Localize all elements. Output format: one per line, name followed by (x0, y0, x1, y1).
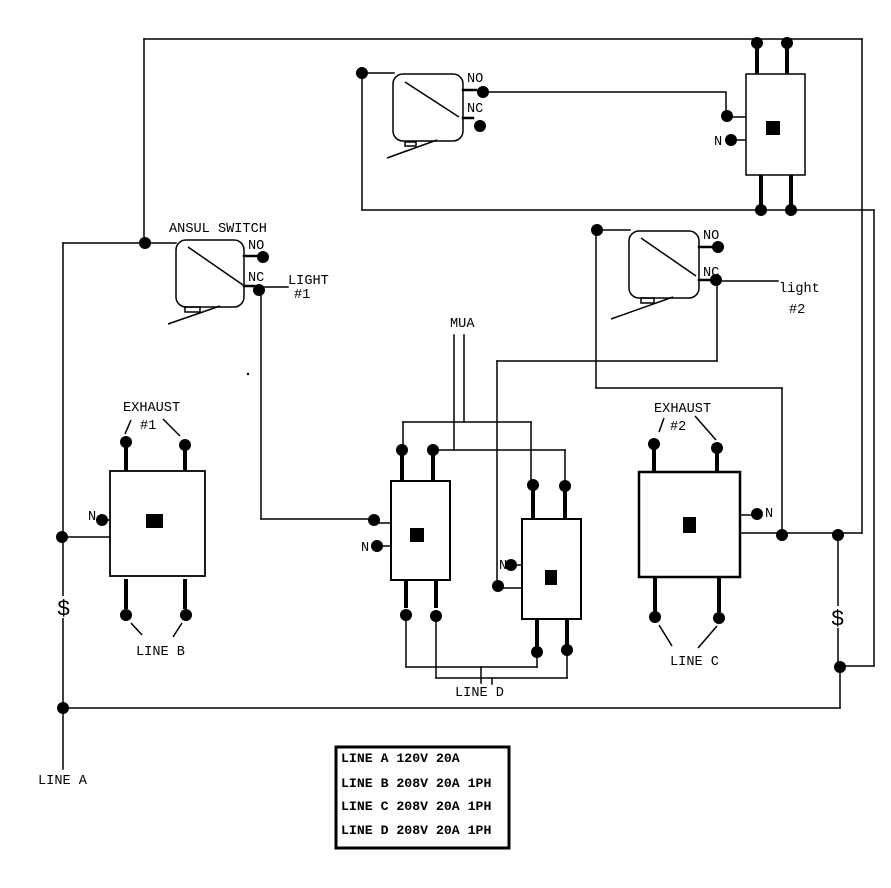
svg-text:LINE B: LINE B (136, 645, 185, 660)
svg-text:NO: NO (467, 72, 483, 87)
node S3 feed (591, 224, 603, 236)
wire bottom long rail (63, 707, 840, 709)
node exhaust1 fan right (179, 439, 191, 451)
svg-text:N: N (765, 507, 773, 522)
wire MUA lower to K4 terminal (564, 450, 566, 486)
microswitch S1 body (387, 74, 463, 158)
contactor K3 MUA (391, 481, 450, 580)
wire MUA branch upper horizontal (403, 421, 531, 423)
svg-text:ANSUL SWITCH: ANSUL SWITCH (169, 222, 267, 237)
svg-text:#1: #1 (294, 288, 310, 303)
svg-text:LINE D 208V 20A 1PH: LINE D 208V 20A 1PH (341, 823, 491, 838)
svg-text:EXHAUST: EXHAUST (654, 402, 711, 417)
wire joint down to bottom rail (839, 667, 841, 708)
node S1 NC terminal (474, 120, 486, 132)
node fuse top junction (832, 529, 844, 541)
svg-text:$: $ (831, 607, 844, 632)
contactor K1 terminal stubs (757, 45, 791, 208)
wire S3 feed vertical (595, 230, 597, 388)
svg-text:MUA: MUA (450, 317, 475, 332)
wire MUA line 1 (453, 335, 455, 450)
contactor K5 terminal stubs (654, 449, 719, 612)
wire line B slash right (173, 623, 182, 637)
node K4 coil (492, 580, 504, 592)
node exhaust1 line left (120, 609, 132, 621)
node K1 N (725, 134, 737, 146)
wire K3 coil stub (376, 522, 391, 524)
node exhaust2 fan right (711, 442, 723, 454)
svg-text:LINE A: LINE A (38, 774, 88, 789)
wire ansul feed horizontal (63, 242, 176, 244)
wire far right outer vertical (873, 210, 875, 666)
node K1 coil (721, 110, 733, 122)
contactor K2 exhaust1 (110, 471, 205, 576)
svg-text:LINE D: LINE D (455, 686, 504, 701)
svg-text:LIGHT: LIGHT (288, 274, 329, 289)
wire light1 NC vertical (260, 291, 262, 519)
node K4 bottom left (531, 646, 543, 658)
node S3 NC (710, 274, 722, 286)
wire line B slash left (131, 623, 142, 635)
stray speck (247, 373, 249, 375)
svg-text:LINE B 208V 20A 1PH: LINE B 208V 20A 1PH (341, 776, 491, 791)
svg-text:light: light (779, 282, 820, 297)
label pointer slashes (125, 416, 717, 648)
node K3 coil (368, 514, 380, 526)
microswitch S2 ANSUL body (168, 240, 244, 324)
wire exhaust1 left feed (63, 536, 111, 538)
wire exhaust1 label slash left (125, 420, 131, 434)
node exhaust1 N (96, 514, 108, 526)
wire MUA line 2 (463, 335, 465, 422)
node K4 N (505, 559, 517, 571)
fuse symbol left (56, 596, 72, 622)
node S3 NO (712, 241, 724, 253)
node K4 top left (527, 479, 539, 491)
svg-text:NO: NO (703, 229, 719, 244)
wire MUA lower horizontal (433, 449, 565, 451)
wire line D lower horizontal (436, 677, 567, 679)
node ansul junction (139, 237, 151, 249)
wire K3 line D left drop (405, 620, 407, 667)
wire ansul NO stub (244, 255, 257, 258)
svg-text:N: N (499, 559, 507, 574)
node ansul NC (253, 284, 265, 296)
wire line D tick 2 (491, 678, 493, 684)
node S1 NO terminal (477, 86, 489, 98)
svg-text:#2: #2 (670, 420, 686, 435)
wire top section bottom rail (362, 209, 874, 211)
wire line C slash left (659, 625, 672, 646)
svg-text:LINE C 208V 20A 1PH: LINE C 208V 20A 1PH (341, 799, 491, 814)
node exhaust2 N (751, 508, 763, 520)
svg-text:NC: NC (248, 271, 264, 286)
node fuse bottom junction (834, 661, 846, 673)
wire S3 NC horizontal to K4 (497, 360, 717, 362)
wire S1 NC stub (463, 117, 473, 120)
node ansul NO (257, 251, 269, 263)
contactor K4 terminal stubs (533, 489, 567, 648)
wire K4 feed vertical (496, 361, 498, 586)
wire light1 NC to K3 (261, 518, 374, 520)
node exhaust1 feed (56, 531, 68, 543)
wire K3 line D right drop (435, 621, 437, 678)
node K4 bottom right (561, 644, 573, 656)
wire K4 right drop (566, 655, 568, 678)
node K3 top left (396, 444, 408, 456)
fuse symbol right (830, 606, 846, 632)
wire outer vertical to fuse joint (840, 665, 874, 667)
svg-text:#2: #2 (789, 303, 805, 318)
svg-text:NO: NO (248, 239, 264, 254)
contactor K3 terminal stubs (402, 454, 436, 608)
node S1 feed (356, 67, 368, 79)
wire top rail (144, 38, 862, 40)
node line A junction (57, 702, 69, 714)
wire left vertical of top corner (143, 39, 145, 243)
wire top switch feed stub (362, 72, 394, 74)
wire MUA branch to K4 terminal (530, 422, 532, 485)
node exhaust2 line left (649, 611, 661, 623)
wire exhaust2 N stub (740, 514, 752, 516)
wire K1 N stub (736, 139, 746, 141)
svg-text:EXHAUST: EXHAUST (123, 401, 180, 416)
wire S3 feed stub (597, 229, 630, 231)
legend box (336, 747, 509, 848)
node exhaust2 feed junction (776, 529, 788, 541)
svg-text:N: N (88, 510, 96, 525)
wire K4 coil stub (498, 587, 522, 589)
node K3 N (371, 540, 383, 552)
wire exhaust2 label slash left (659, 418, 664, 432)
contactor K1 (746, 74, 805, 175)
wire K3 N stub (378, 545, 391, 547)
wire S1 NO to relay K1 (483, 92, 726, 116)
node exhaust2 line right (713, 612, 725, 624)
svg-text:N: N (714, 135, 722, 150)
svg-text:LINE C: LINE C (670, 655, 719, 670)
node K1 top left (751, 37, 763, 49)
svg-text:NC: NC (467, 102, 483, 117)
wire line D tick 1 (480, 667, 482, 683)
wire exhaust1 label slash right (163, 419, 180, 436)
wire S3 NC stub (699, 279, 710, 282)
node K1 bottom left (755, 204, 767, 216)
node exhaust1 line right (180, 609, 192, 621)
node K3 bottom left (400, 609, 412, 621)
wire exhaust2 label slash right (695, 416, 716, 440)
node K1 top right (781, 37, 793, 49)
wire line D upper horizontal (406, 666, 537, 668)
wire K4 N stub (512, 564, 522, 566)
wire exhaust2 feed vertical (781, 388, 783, 535)
wire fuse drop right (837, 535, 839, 667)
wire MUA branch to K3 terminal (402, 422, 404, 450)
node K3 top right (427, 444, 439, 456)
wire S3 NC vertical (716, 281, 718, 361)
wire S3 feed horizontal (596, 387, 782, 389)
wire right vertical from top rail to exhaust2 feed (861, 39, 863, 533)
wire exhaust1 N stub (104, 519, 110, 521)
node K3 bottom right (430, 610, 442, 622)
svg-text:#1: #1 (140, 419, 156, 434)
wire exhaust2 right feed (740, 532, 862, 534)
svg-text:N: N (361, 541, 369, 556)
wire light2 label stub (722, 280, 778, 282)
svg-text:$: $ (57, 597, 70, 622)
node exhaust1 fan left (120, 436, 132, 448)
node K1 bottom right (785, 204, 797, 216)
contactor K2 terminal stubs (126, 446, 185, 609)
wire S3 NO stub (699, 246, 712, 249)
contactor K4 MUA2 (522, 519, 581, 619)
svg-text:LINE A 120V 20A: LINE A 120V 20A (341, 751, 460, 766)
contactor K5 exhaust2 (639, 472, 740, 577)
node exhaust2 fan left (648, 438, 660, 450)
wire ansul NC stub (244, 285, 254, 288)
microswitch S3 body (611, 231, 699, 319)
wire left main vertical (LINE A) (62, 243, 64, 769)
wire K1 coil stub (727, 116, 746, 118)
wire light1 label stub (265, 286, 288, 288)
wire S1 NO stub (463, 89, 476, 92)
svg-text:NC: NC (703, 266, 719, 281)
wire top switch feed vertical (361, 73, 363, 210)
wire K4 left drop (536, 657, 538, 667)
node K4 top right (559, 480, 571, 492)
wire line C slash right (698, 626, 717, 648)
